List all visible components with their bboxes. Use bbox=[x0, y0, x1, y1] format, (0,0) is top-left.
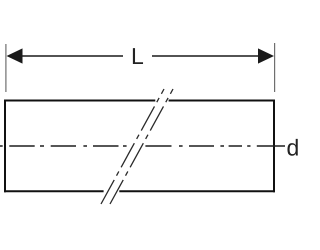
centerline (dash-dot axis of pipe) bbox=[0, 145, 285, 147]
wire: dimension line left segment bbox=[20, 55, 123, 57]
label d bbox=[287, 139, 297, 156]
arrowhead left bbox=[7, 48, 23, 63]
pipe body outline bbox=[4, 100, 275, 193]
wire: pipe top edge (gap at break) bbox=[4, 100, 275, 102]
arrowhead right bbox=[258, 48, 274, 63]
break mark: right chain line bbox=[110, 89, 173, 204]
wire: pipe bottom edge (gap at break) bbox=[4, 190, 275, 192]
extension line left bbox=[5, 44, 7, 92]
break mark: left chain line bbox=[101, 89, 164, 204]
wire: pipe right edge bbox=[273, 100, 275, 193]
dimension line L bbox=[20, 55, 261, 57]
wire: pipe left edge bbox=[4, 100, 6, 193]
label L bbox=[133, 48, 143, 64]
extension line right bbox=[274, 43, 276, 92]
wire: dimension line right segment bbox=[152, 55, 261, 57]
